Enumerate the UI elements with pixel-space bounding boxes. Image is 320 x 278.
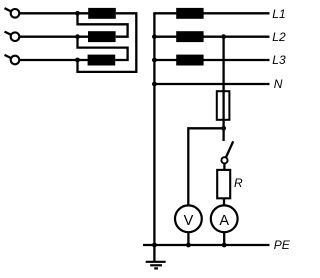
ammeter A circle: [211, 205, 238, 232]
svg-text:L2: L2: [272, 30, 286, 44]
wire resistor R to ammeter: [223, 198, 225, 205]
fuse F3 on L3: [176, 55, 203, 66]
heating element E2: [88, 31, 116, 42]
svg-text:L1: L1: [272, 7, 285, 21]
switch S contact circle: [221, 157, 227, 163]
node phase 3 junction: [75, 58, 80, 63]
node ammeter-PE: [222, 243, 227, 248]
heating element E3: [88, 55, 116, 66]
node bus-L2: [152, 34, 157, 39]
wire line N: [154, 83, 269, 85]
switch S blade: [226, 141, 233, 157]
svg-text:N: N: [274, 77, 283, 91]
svg-text:A: A: [219, 213, 229, 229]
wire branch node to voltmeter drop: [188, 128, 223, 205]
terminal X2 (plug contact): [5, 32, 20, 41]
svg-text:PE: PE: [274, 238, 291, 252]
wire phase 2 from terminal X2 to element E2: [19, 36, 89, 38]
svg-text:L3: L3: [272, 53, 286, 67]
node bus-L3: [152, 58, 157, 63]
ground symbol (earth): [146, 245, 166, 268]
wire line L2: [154, 36, 269, 38]
terminal X3 (plug contact): [5, 55, 20, 64]
wire line L3: [154, 59, 269, 61]
node voltmeter-PE: [186, 243, 191, 248]
resistor R: [217, 170, 230, 198]
node bus-N: [152, 82, 157, 87]
node branch to voltmeter: [221, 126, 226, 131]
node phase 2 junction: [75, 34, 80, 39]
wire line PE: [143, 244, 270, 246]
wire ammeter to PE: [223, 232, 225, 245]
node bus-PE: [152, 243, 157, 248]
wire supply bus vertical (all conductors commoned to PE): [153, 13, 155, 245]
wire switch to resistor R: [223, 163, 225, 170]
wire line L1: [153, 12, 269, 14]
switch S upper stub: [222, 128, 224, 141]
wire phase 1 from terminal X1 to element E1: [19, 12, 89, 14]
wire measuring branch from L2 down through fuse F4: [222, 37, 224, 129]
voltmeter V circle: [175, 205, 202, 232]
wire phase 3 from terminal X3 to element E3: [19, 59, 89, 61]
fuse F4: [217, 91, 230, 120]
wire voltmeter to PE: [187, 232, 189, 245]
wire loop element E3 right terminal to phase 2 node: [78, 37, 128, 60]
svg-text:V: V: [184, 213, 194, 229]
heating element E1: [88, 8, 116, 19]
wire loop element E2 right terminal to phase 1 node: [78, 13, 128, 36]
node phase 1 junction: [75, 11, 80, 16]
node measuring branch tap on L2: [221, 34, 226, 39]
fuse F1 on L1: [176, 8, 203, 19]
fuse F2 on L2: [176, 31, 203, 42]
terminal X1 (plug contact): [5, 8, 20, 17]
svg-text:R: R: [234, 176, 243, 190]
wire loop element E1 right terminal to phase 3 node: [78, 13, 137, 72]
